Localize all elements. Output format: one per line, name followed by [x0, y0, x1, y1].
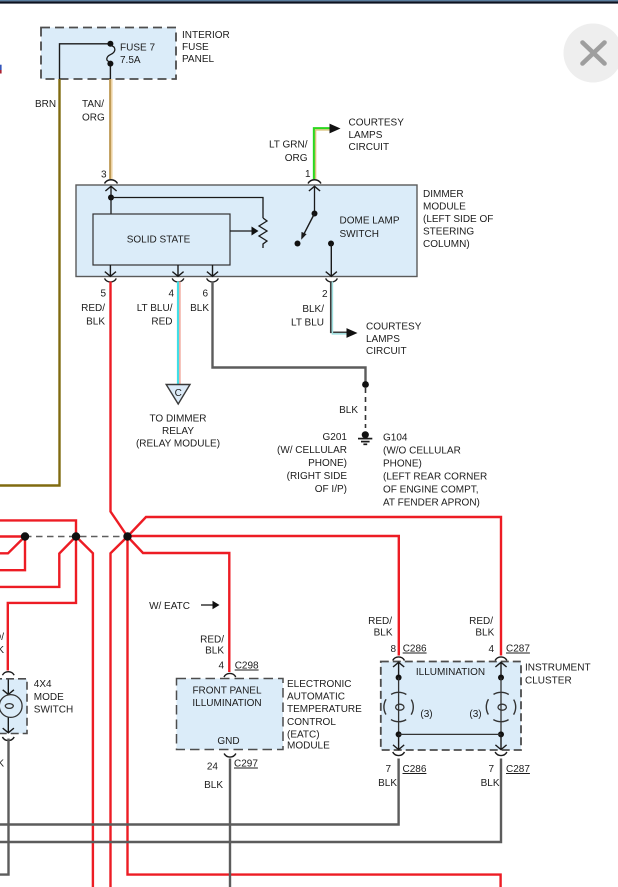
svg-text:PHONE): PHONE) [308, 458, 347, 469]
svg-text:LAMPS: LAMPS [366, 334, 400, 345]
wire BLK C287 to left edge [0, 759, 501, 843]
svg-text:LAMPS: LAMPS [349, 130, 383, 141]
connector arc pin 1 [308, 180, 321, 184]
svg-text:RED/: RED/ [200, 634, 224, 645]
node dots top lamps [396, 675, 402, 681]
svg-text:ILLUMINATION: ILLUMINATION [192, 698, 261, 709]
svg-text:AT FENDER APRON): AT FENDER APRON) [383, 498, 480, 509]
svg-text:TO DIMMER: TO DIMMER [149, 414, 206, 425]
svg-text:C287: C287 [506, 764, 530, 775]
svg-text:7: 7 [488, 764, 494, 775]
svg-text:C286: C286 [403, 764, 427, 775]
svg-text:OF ENGINE COMPT,: OF ENGINE COMPT, [383, 485, 479, 496]
left-edge clipped glyph [0, 65, 2, 70]
svg-text:(W/O CELLULAR: (W/O CELLULAR [383, 446, 461, 457]
svg-text:FRONT PANEL: FRONT PANEL [192, 685, 262, 696]
svg-text:MODE: MODE [34, 692, 64, 703]
wire BLK/LT BLU pin2 [331, 282, 347, 333]
instrument cluster illumination box [381, 662, 521, 751]
close button [564, 24, 618, 83]
svg-text:RED: RED [151, 317, 172, 328]
svg-text:ORG: ORG [285, 153, 308, 164]
connector arcs bottom [393, 752, 405, 756]
connector arc 4x4 bottom [2, 737, 14, 741]
node dot pin3 [108, 195, 114, 201]
svg-text:TAN/: TAN/ [82, 99, 104, 110]
svg-text:INSTRUMENT: INSTRUMENT [525, 663, 591, 674]
svg-text:CONTROL: CONTROL [287, 717, 336, 728]
svg-text:4X4: 4X4 [34, 679, 52, 690]
svg-text:C297: C297 [234, 759, 258, 770]
red wire S3 straight down then right to bottom [128, 537, 501, 887]
svg-text:PANEL: PANEL [182, 54, 214, 65]
bottom pin arrows out of solid state [105, 265, 116, 276]
svg-text:8: 8 [390, 644, 396, 655]
svg-text:COURTESY: COURTESY [349, 118, 405, 129]
svg-text:OF I/P): OF I/P) [315, 484, 347, 495]
wire BLK C286 to left edge [0, 759, 399, 825]
svg-text:BLK: BLK [190, 303, 209, 314]
svg-text:SWITCH: SWITCH [340, 229, 379, 240]
svg-text:MODULE: MODULE [287, 741, 330, 752]
svg-text:DIMMER: DIMMER [423, 189, 464, 200]
svg-text:C: C [175, 388, 182, 399]
lamp L1 [398, 678, 400, 735]
svg-text:(3): (3) [469, 709, 481, 720]
svg-text:C287: C287 [506, 644, 530, 655]
svg-text:MODULE: MODULE [423, 202, 466, 213]
svg-text:(RELAY MODULE): (RELAY MODULE) [136, 439, 220, 450]
connector C triangle [166, 385, 190, 405]
connector arcs instrument cluster top [393, 657, 405, 661]
connector arc C298 [224, 673, 236, 677]
svg-text:7: 7 [385, 764, 391, 775]
svg-text:BLK: BLK [339, 405, 358, 416]
arrow courtesy lamps bottom [347, 328, 358, 338]
svg-text:BLK: BLK [374, 627, 393, 638]
svg-text:BLK: BLK [0, 759, 4, 770]
svg-text:(EATC): (EATC) [287, 729, 320, 740]
svg-text:BLK: BLK [0, 645, 4, 656]
svg-text:(W/ CELLULAR: (W/ CELLULAR [277, 445, 347, 456]
svg-text:COLUMN): COLUMN) [423, 239, 470, 250]
front panel illumination box [177, 679, 284, 750]
splice bus dashed line [25, 536, 128, 538]
red wire S2 down to 4x4 switch [8, 537, 76, 671]
red wire into splice S1 from left [0, 535, 22, 537]
svg-text:FUSE: FUSE [182, 42, 209, 53]
arrow courtesy lamps top [330, 124, 341, 134]
dome lamp switch [314, 186, 316, 213]
svg-text:CIRCUIT: CIRCUIT [349, 142, 390, 153]
svg-text:3: 3 [101, 170, 107, 181]
svg-text:STEERING: STEERING [423, 227, 474, 238]
red wire S1 diag lower-left [0, 537, 25, 554]
connector arc 4x4 top [2, 672, 14, 676]
svg-text:LT BLU: LT BLU [291, 318, 324, 329]
svg-text:INTERIOR: INTERIOR [182, 30, 230, 41]
svg-text:RED/: RED/ [368, 616, 392, 627]
svg-text:BLK/: BLK/ [302, 304, 324, 315]
connector arc pin 3 [105, 180, 118, 184]
wire BLK C297 down [229, 759, 231, 887]
svg-text:4: 4 [168, 289, 174, 300]
svg-text:2: 2 [322, 289, 328, 300]
wiper arrow to resistor [230, 230, 252, 232]
svg-text:(LEFT REAR CORNER: (LEFT REAR CORNER [383, 472, 487, 483]
red wire S3 diag down-left to bottom [111, 537, 128, 887]
svg-text:DOME LAMP: DOME LAMP [340, 216, 400, 227]
node dot BLK [362, 381, 369, 388]
svg-text:C286: C286 [403, 644, 427, 655]
svg-text:1: 1 [305, 169, 311, 180]
svg-text:6: 6 [202, 289, 208, 300]
arrows into illumination box [393, 662, 404, 677]
red wire S1 down then left [0, 537, 25, 571]
4x4 mode switch box [0, 679, 27, 734]
svg-text:BLK: BLK [481, 778, 500, 789]
red wire S3 diag down-right to C298 pin4 [128, 537, 230, 673]
interior fuse panel box [41, 28, 176, 80]
svg-text:RED/: RED/ [81, 303, 105, 314]
red wire S2 diag lower-right to bottom [76, 537, 93, 887]
bottom connector arcs [105, 278, 117, 282]
svg-text:COURTESY: COURTESY [366, 322, 422, 333]
svg-text:C298: C298 [235, 661, 259, 672]
wire BRN [0, 79, 60, 486]
svg-text:LT BLU/: LT BLU/ [137, 303, 173, 314]
svg-text:FUSE 7: FUSE 7 [120, 42, 155, 53]
wire dot into solid state [110, 198, 112, 215]
wire LT GRN/ORG [314, 128, 330, 179]
svg-text:PHONE): PHONE) [383, 459, 422, 470]
svg-text:4: 4 [488, 644, 494, 655]
svg-text:24: 24 [207, 762, 219, 773]
svg-text:SWITCH: SWITCH [34, 705, 73, 716]
red wire S3 right to C286 pin8 [128, 536, 399, 656]
svg-text:4: 4 [218, 661, 224, 672]
fuse F7 black lead [60, 44, 111, 79]
arrows out of illumination box [393, 734, 404, 749]
splice dots [21, 532, 29, 540]
svg-text:RED/: RED/ [0, 632, 4, 643]
wire BLK 4x4 down [0, 739, 9, 875]
svg-text:(RIGHT SIDE: (RIGHT SIDE [287, 471, 348, 482]
ground G201/G104 [362, 431, 369, 438]
fuse 7 symbol [107, 41, 113, 47]
svg-text:RED/: RED/ [469, 616, 493, 627]
svg-text:BLK: BLK [378, 778, 397, 789]
svg-text:G104: G104 [383, 433, 408, 444]
svg-text:CLUSTER: CLUSTER [525, 676, 572, 687]
svg-text:5: 5 [100, 289, 106, 300]
pin3 arrow into module [105, 186, 116, 191]
red wire S2 up then left [0, 520, 76, 536]
svg-text:BLK: BLK [86, 317, 105, 328]
svg-text:ILLUMINATION: ILLUMINATION [416, 667, 485, 678]
wire LT BLU/RED pin4 [177, 282, 179, 385]
wire BLK pin6 to ground [213, 282, 366, 385]
svg-text:ELECTRONIC: ELECTRONIC [287, 679, 351, 690]
dimmer module box [76, 185, 417, 277]
svg-text:W/ EATC: W/ EATC [149, 601, 190, 612]
dashed wire to ground [365, 388, 367, 428]
svg-text:(3): (3) [420, 709, 432, 720]
svg-text:BRN: BRN [35, 99, 56, 110]
4x4 lamp [3, 680, 14, 695]
resistor R (dimmer rheostat) [259, 218, 267, 248]
wire TAN/ORG [109, 79, 111, 179]
red wire S3 diag up-right to C287 pin4 [128, 517, 502, 656]
svg-text:BLK: BLK [205, 646, 224, 657]
svg-text:AUTOMATIC: AUTOMATIC [287, 692, 345, 703]
connector arc C297 [224, 754, 236, 758]
wire dot to resistor [111, 198, 263, 219]
top browser bar [0, 0, 618, 1]
svg-text:(LEFT SIDE OF: (LEFT SIDE OF [423, 214, 493, 225]
wire RED/BLK pin5 to splice [111, 282, 128, 537]
red wire S2 diag lower-left then left [0, 537, 76, 587]
svg-text:TEMPERATURE: TEMPERATURE [287, 704, 362, 715]
svg-text:BLK: BLK [204, 780, 223, 791]
svg-text:LT GRN/: LT GRN/ [269, 140, 308, 151]
svg-text:BLK: BLK [475, 627, 494, 638]
svg-text:CIRCUIT: CIRCUIT [366, 346, 407, 357]
node dots bottom lamps + rail [396, 731, 402, 737]
svg-text:G201: G201 [323, 432, 348, 443]
svg-text:RELAY: RELAY [162, 426, 194, 437]
svg-text:GND: GND [217, 736, 239, 747]
svg-text:SOLID STATE: SOLID STATE [127, 235, 191, 246]
svg-text:ORG: ORG [82, 113, 105, 124]
svg-text:7.5A: 7.5A [120, 55, 141, 66]
solid state box [93, 214, 230, 265]
lamp L2 [500, 678, 502, 735]
